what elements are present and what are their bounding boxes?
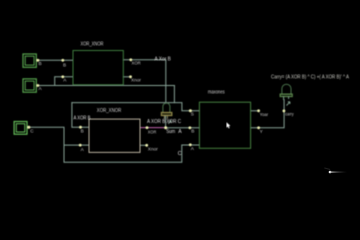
svg-text:B: B	[81, 129, 84, 134]
svg-text:carry: carry	[285, 112, 294, 117]
svg-text:A: A	[178, 129, 182, 135]
svg-text:Yoar: Yoar	[260, 112, 269, 117]
svg-text:B: B	[63, 63, 66, 68]
svg-text:A XOR B XOR C: A XOR B XOR C	[147, 119, 181, 125]
svg-text:A Xor B: A Xor B	[155, 56, 172, 62]
svg-text:Carry= (A XOR B) ^ C) +( A XOR: Carry= (A XOR B) ^ C) +( A XOR B)' ^ A	[271, 75, 349, 81]
svg-text:B: B	[39, 61, 42, 66]
svg-text:A XOR B: A XOR B	[74, 115, 91, 121]
svg-text:S: S	[191, 112, 194, 117]
svg-text:XOR_XNOR: XOR_XNOR	[97, 108, 122, 114]
svg-text:XOR: XOR	[148, 129, 157, 134]
svg-text:XOR: XOR	[132, 60, 142, 65]
svg-text:C: C	[178, 151, 182, 157]
svg-text:Sum: Sum	[166, 129, 175, 135]
svg-text:B: B	[191, 129, 194, 134]
svg-text:XOR_XNOR: XOR_XNOR	[81, 42, 104, 48]
svg-text:Xnor: Xnor	[131, 78, 141, 83]
svg-text:Xnor: Xnor	[148, 146, 158, 151]
svg-text:maxones: maxones	[208, 90, 225, 96]
